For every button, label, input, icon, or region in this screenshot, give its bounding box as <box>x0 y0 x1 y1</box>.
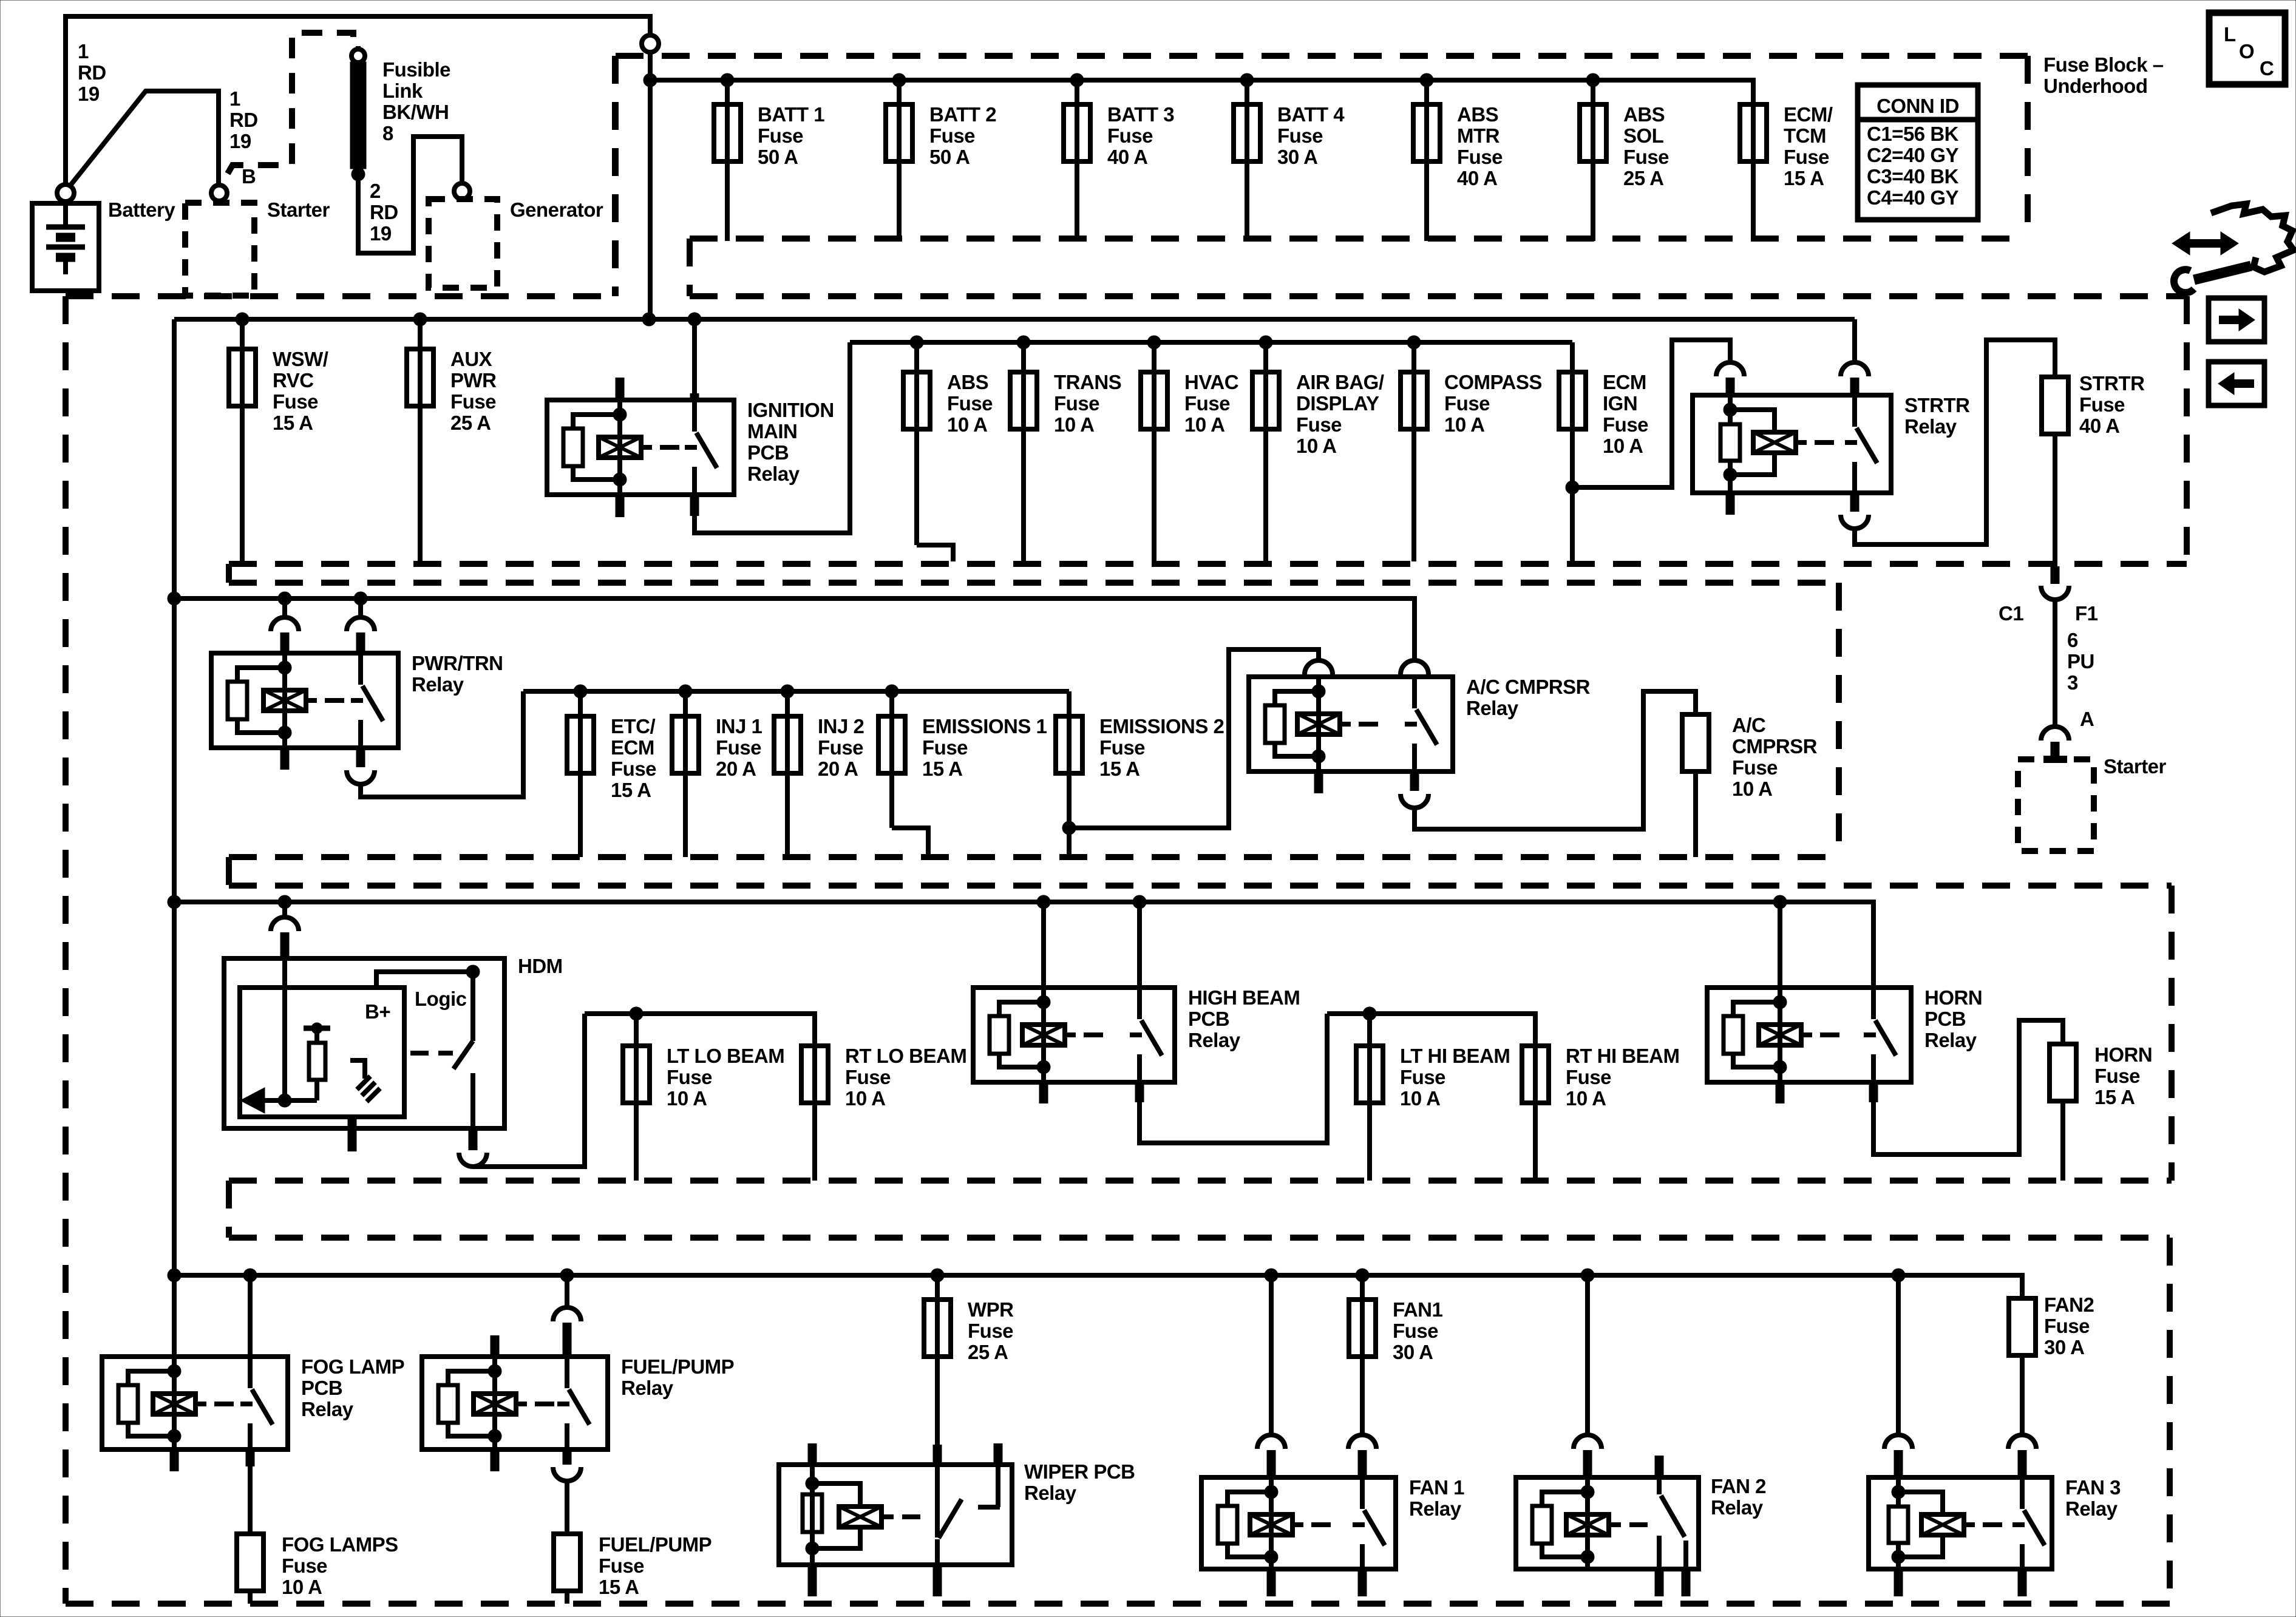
wire A/C CMPRSR fuse output <box>1693 771 1698 857</box>
svg-text:Battery: Battery <box>108 198 175 221</box>
fusible link terminal <box>356 46 361 50</box>
service wrench icon <box>2172 204 2294 293</box>
relay HIGH BEAM PCB <box>973 986 1300 1082</box>
wire HDM output to low beam fuses <box>473 1014 585 1167</box>
fuse STRTR <box>2042 372 2145 437</box>
svg-text:STRTR: STRTR <box>2079 372 2145 395</box>
svg-text:RD: RD <box>78 61 106 84</box>
svg-text:15 A: 15 A <box>922 758 962 780</box>
svg-text:Relay: Relay <box>747 463 800 485</box>
svg-text:30 A: 30 A <box>1393 1341 1433 1363</box>
svg-text:Fuse: Fuse <box>2094 1065 2140 1087</box>
svg-text:LT LO BEAM: LT LO BEAM <box>667 1045 784 1067</box>
pin stub PWR/TRN coil output <box>280 748 290 770</box>
fuse ABS SOL <box>1580 80 1669 241</box>
junction HDM switch <box>466 965 480 978</box>
fuse A/C CMPRSR <box>1682 714 1818 800</box>
junction bus1 BATT 1 <box>721 73 734 87</box>
svg-text:19: 19 <box>78 83 100 105</box>
svg-text:FUEL/PUMP: FUEL/PUMP <box>599 1533 712 1556</box>
resistor HDM sense <box>304 1023 330 1100</box>
fuse HORN <box>2050 1043 2152 1108</box>
svg-text:20 A: 20 A <box>716 758 756 780</box>
fuse RT HI BEAM <box>1522 1045 1680 1181</box>
connector FAN1 coil pin <box>1257 1435 1285 1449</box>
wire FOG LAMPS fuse output <box>248 1591 253 1604</box>
svg-text:Relay: Relay <box>1024 1482 1077 1504</box>
svg-text:Fuse: Fuse <box>947 392 993 415</box>
svg-text:HORN: HORN <box>1924 986 1982 1009</box>
bus high beam <box>1327 1011 1535 1016</box>
junction bus3 PWR/TRN coil <box>278 592 291 605</box>
fuse AUX PWR <box>407 319 497 561</box>
junction bus5 FAN3 relay coil <box>1892 1269 1905 1282</box>
junction bus1 BATT 2 <box>892 73 906 87</box>
pin stub FOG coil output <box>170 1449 179 1471</box>
wire EMISSIONS 2 output down <box>1067 828 1072 857</box>
svg-text:PCB: PCB <box>301 1377 342 1399</box>
svg-text:B: B <box>242 165 256 188</box>
connector A/C switch output <box>1401 794 1428 808</box>
svg-text:RD: RD <box>229 109 258 131</box>
svg-text:SOL: SOL <box>1623 124 1664 147</box>
svg-text:30 A: 30 A <box>2044 1336 2084 1358</box>
wire bus4 to HORN relay coil <box>1773 895 1787 909</box>
junction bus2 feed <box>642 313 656 326</box>
svg-text:FUEL/PUMP: FUEL/PUMP <box>621 1355 734 1378</box>
svg-text:Fuse: Fuse <box>1457 146 1503 168</box>
svg-text:10 A: 10 A <box>282 1576 322 1598</box>
svg-text:INJ 1: INJ 1 <box>716 715 763 737</box>
svg-text:PCB: PCB <box>747 441 789 464</box>
svg-text:RT LO BEAM: RT LO BEAM <box>845 1045 966 1067</box>
connector FUEL/PUMP switch pin <box>553 1307 581 1321</box>
svg-text:FAN 3: FAN 3 <box>2065 1476 2121 1499</box>
svg-text:Fuse: Fuse <box>1566 1066 1611 1088</box>
svg-text:Fuse: Fuse <box>758 124 803 147</box>
svg-text:MAIN: MAIN <box>747 420 797 442</box>
pin stub ignition switch output <box>690 496 699 516</box>
svg-text:8: 8 <box>382 122 393 144</box>
svg-text:FOG LAMPS: FOG LAMPS <box>282 1533 398 1556</box>
starter (dashed box) <box>2018 759 2094 851</box>
svg-text:ABS: ABS <box>1623 103 1665 126</box>
fuse ECM IGN <box>1559 342 1648 487</box>
svg-text:Fuse: Fuse <box>2044 1315 2090 1337</box>
wire bus5 to FUEL/PUMP relay switch <box>565 1275 569 1308</box>
connector FUEL/PUMP switch output <box>553 1467 581 1481</box>
svg-text:10 A: 10 A <box>1400 1087 1440 1110</box>
bus battery positive (top fuse row) <box>650 78 1753 83</box>
svg-text:A/C: A/C <box>1732 714 1765 736</box>
svg-text:FOG LAMP: FOG LAMP <box>301 1355 404 1378</box>
wire bus4 corner to HORN relay switch <box>1871 902 1873 988</box>
bus low beam <box>585 1011 815 1016</box>
svg-text:Relay: Relay <box>1188 1029 1241 1051</box>
svg-text:Fuse: Fuse <box>1099 736 1145 759</box>
fuse EMISSIONS 2 <box>1056 691 1224 828</box>
wire left vertical bus <box>172 319 177 1275</box>
wire battery to starter B terminal (1 RD 19) <box>69 91 219 188</box>
svg-text:Fuse: Fuse <box>599 1554 644 1577</box>
wire FUEL/PUMP fuse output <box>565 1591 569 1604</box>
svg-text:FAN 2: FAN 2 <box>1711 1475 1766 1497</box>
relay FAN 1 <box>1201 1476 1464 1569</box>
svg-text:Relay: Relay <box>1924 1029 1977 1051</box>
svg-text:BATT 3: BATT 3 <box>1107 103 1174 126</box>
bus section3 switched <box>523 689 1069 694</box>
generator output terminal <box>454 183 470 199</box>
junction ECM IGN output <box>1566 481 1579 494</box>
svg-text:HDM: HDM <box>518 955 563 977</box>
wire STRTR relay output to STRTR fuse <box>1855 340 2055 544</box>
wire bus2 to ignition relay switch <box>692 319 697 393</box>
svg-text:Fuse: Fuse <box>1054 392 1099 415</box>
svg-text:DISPLAY: DISPLAY <box>1296 392 1379 415</box>
pin stub A/C coil output <box>1314 771 1323 793</box>
svg-text:3: 3 <box>2067 671 2078 694</box>
wire bus5 to FAN2 relay coil <box>1585 1275 1590 1436</box>
fuse RT HI BEAM <box>1533 1014 1535 1046</box>
svg-text:10 A: 10 A <box>1184 413 1224 436</box>
junction bus5 FOG switch <box>243 1269 257 1282</box>
fuse ABS MTR <box>1413 80 1503 241</box>
connector starter terminal A <box>2041 727 2069 741</box>
svg-text:A/C CMPRSR: A/C CMPRSR <box>1466 676 1591 698</box>
svg-text:ECM/: ECM/ <box>1784 103 1833 126</box>
wire bus1 corner to ECM/TCM fuse <box>1751 80 1753 104</box>
wire fusible link to generator (2 RD 19) <box>358 137 462 253</box>
fuse RT LO BEAM <box>812 1014 815 1046</box>
junction EMISSIONS 2 output <box>1062 821 1076 835</box>
svg-text:Relay: Relay <box>1711 1496 1764 1519</box>
svg-text:15 A: 15 A <box>599 1576 639 1598</box>
svg-text:25 A: 25 A <box>968 1341 1008 1363</box>
svg-text:Fuse: Fuse <box>282 1554 327 1577</box>
svg-text:6: 6 <box>2067 629 2078 651</box>
junction bus5 WPR fuse <box>931 1269 944 1282</box>
pin stub HDM ground <box>348 1117 357 1151</box>
svg-text:Fuse: Fuse <box>1400 1066 1445 1088</box>
svg-text:AIR BAG/: AIR BAG/ <box>1296 371 1384 393</box>
connector FAN1 switch pin <box>1348 1435 1376 1449</box>
bus section5 <box>174 1273 2022 1278</box>
junction bus3b INJ 1 <box>679 685 692 698</box>
svg-text:C4=40 GY: C4=40 GY <box>1867 186 1958 209</box>
junction bus3b ETC/ECM <box>574 685 587 698</box>
pin stub HDM output <box>469 1128 478 1150</box>
relay WIPER PCB <box>779 1443 1135 1596</box>
junction bus2b COMPASS <box>1407 336 1421 349</box>
connector HDM output pin <box>459 1153 487 1167</box>
wire HDM internal B+ arrow <box>258 1098 317 1103</box>
svg-text:15 A: 15 A <box>2094 1086 2135 1108</box>
svg-text:2: 2 <box>370 180 381 202</box>
fuse EMISSIONS 1 <box>878 691 1047 828</box>
svg-text:RD: RD <box>370 201 398 223</box>
fuse FUEL/PUMP <box>554 1533 712 1598</box>
pin stub HORN coil output <box>1776 1082 1785 1103</box>
svg-text:Relay: Relay <box>1409 1497 1462 1520</box>
svg-text:HIGH BEAM: HIGH BEAM <box>1188 986 1300 1009</box>
svg-text:F1: F1 <box>2075 602 2098 625</box>
svg-text:COMPASS: COMPASS <box>1444 371 1542 393</box>
svg-text:INJ 2: INJ 2 <box>818 715 864 737</box>
svg-text:Fuse: Fuse <box>450 390 496 413</box>
svg-text:50 A: 50 A <box>758 146 798 168</box>
junction bus1 ABS SOL <box>1586 73 1600 87</box>
svg-text:10 A: 10 A <box>667 1087 707 1110</box>
pin stub FOG switch output <box>246 1449 255 1466</box>
svg-text:ABS: ABS <box>947 371 988 393</box>
svg-text:Fuse: Fuse <box>1107 124 1153 147</box>
svg-text:30 A: 30 A <box>1277 146 1317 168</box>
pin stub HORN switch output <box>1869 1082 1878 1102</box>
wire PWR/TRN output to fuse bus3b <box>361 691 523 797</box>
svg-text:10 A: 10 A <box>1566 1087 1606 1110</box>
svg-text:Fusible: Fusible <box>382 58 450 81</box>
svg-text:Fuse: Fuse <box>1623 146 1669 168</box>
wire A/C relay output to A/C CMPRSR fuse <box>1415 691 1696 829</box>
svg-text:Fuse: Fuse <box>845 1066 891 1088</box>
starter B terminal <box>211 185 227 201</box>
connector STRTR switch output <box>1841 515 1869 529</box>
connector STRTR relay switch pin <box>1841 362 1869 376</box>
fuse ECM/TCM <box>1740 103 1833 241</box>
svg-text:19: 19 <box>370 222 392 245</box>
fuse LT HI BEAM <box>1356 1014 1510 1181</box>
svg-text:EMISSIONS 2: EMISSIONS 2 <box>1099 715 1224 737</box>
svg-text:1: 1 <box>78 40 89 63</box>
fuse BATT 4 <box>1234 80 1345 241</box>
svg-text:Fuse: Fuse <box>2079 393 2125 416</box>
pin stub FAN1 outputs <box>1267 1569 1276 1596</box>
connector C1/F1 <box>2051 566 2060 584</box>
fuse HVAC <box>1141 342 1238 561</box>
junction bus5 FAN1 relay coil <box>1265 1269 1278 1282</box>
wire HDM logic to switch <box>376 972 473 988</box>
junction bus1 ABS MTR <box>1420 73 1433 87</box>
junction bus1 BATT 4 <box>1240 73 1254 87</box>
svg-text:BK/WH: BK/WH <box>382 101 449 123</box>
svg-text:Fuse: Fuse <box>922 736 968 759</box>
connector PWR/TRN switch pin <box>347 617 375 631</box>
svg-text:Fuse: Fuse <box>716 736 761 759</box>
svg-text:10 A: 10 A <box>845 1087 885 1110</box>
fuse RT LO BEAM <box>801 1045 966 1181</box>
svg-text:PCB: PCB <box>1188 1008 1229 1030</box>
svg-text:A: A <box>2080 708 2094 730</box>
wire HORN fuse output <box>2060 1101 2065 1181</box>
svg-text:C1: C1 <box>1999 602 2023 625</box>
pin stub STRTR coil output <box>1726 493 1735 515</box>
svg-text:Fuse: Fuse <box>968 1320 1013 1342</box>
fuse ABS <box>903 342 993 545</box>
svg-text:BATT 1: BATT 1 <box>758 103 824 126</box>
svg-text:Fuse: Fuse <box>1277 124 1323 147</box>
junction bus2b ABS <box>910 336 923 349</box>
svg-text:Fuse: Fuse <box>1296 413 1342 436</box>
svg-text:10 A: 10 A <box>1603 435 1643 457</box>
svg-text:40 A: 40 A <box>1457 167 1497 189</box>
fuse WPR <box>924 1275 1014 1445</box>
svg-text:15 A: 15 A <box>1099 758 1140 780</box>
svg-text:10 A: 10 A <box>1296 435 1336 457</box>
wire battery feed junction into fuse block <box>648 52 653 319</box>
junction LT HI BEAM <box>1363 1007 1376 1020</box>
junction bus2 AUX PWR fuse <box>413 313 427 326</box>
dashed wire starter to fusible link <box>228 33 353 174</box>
svg-text:ABS: ABS <box>1457 103 1498 126</box>
fuse BATT 2 <box>886 80 996 241</box>
pin stub STRTR switch output <box>1850 493 1860 512</box>
wire FUEL/PUMP output to fuse <box>565 1481 569 1534</box>
switch HDM output driver <box>470 972 475 1041</box>
svg-text:15 A: 15 A <box>273 412 313 434</box>
junction bus1/feed <box>644 73 657 87</box>
svg-text:L: L <box>2224 23 2236 46</box>
svg-text:Underhood: Underhood <box>2043 75 2147 97</box>
svg-text:HVAC: HVAC <box>1184 371 1238 393</box>
svg-text:TRANS: TRANS <box>1054 371 1121 393</box>
pin stub HIGH BEAM switch output <box>1135 1082 1144 1102</box>
svg-text:Fuse: Fuse <box>611 758 656 780</box>
svg-text:IGN: IGN <box>1603 392 1637 415</box>
connector FAN3 coil pin <box>1884 1435 1912 1449</box>
svg-text:Relay: Relay <box>301 1398 354 1420</box>
junction bus5 FAN1 fuse <box>1356 1269 1369 1282</box>
fuse block underhood dashed outline (top box) <box>616 56 2028 296</box>
wire bus3 corner to A/C relay switch pin <box>1412 598 1415 661</box>
svg-text:Link: Link <box>382 80 423 102</box>
dashed link HDM logic to switch <box>410 1051 429 1056</box>
svg-text:10 A: 10 A <box>1444 413 1484 436</box>
wire bus4 to HIGH BEAM relay coil <box>1037 895 1050 909</box>
svg-text:Relay: Relay <box>621 1377 674 1399</box>
svg-text:Starter: Starter <box>267 198 330 221</box>
connector A/C relay switch pin <box>1401 660 1428 674</box>
pin stub HIGH BEAM coil output <box>1039 1082 1048 1103</box>
module HDM <box>224 955 563 1128</box>
svg-text:RVC: RVC <box>273 369 314 392</box>
pin stub A/C switch output <box>1410 771 1419 791</box>
svg-text:EMISSIONS 1: EMISSIONS 1 <box>922 715 1047 737</box>
junction bus1 BATT 3 <box>1070 73 1084 87</box>
svg-text:Fuse Block –: Fuse Block – <box>2043 53 2164 76</box>
starter S1 (dashed box) <box>185 203 254 296</box>
wire bus2 to STRTR relay switch <box>1852 319 1857 363</box>
fuse INJ 1 <box>672 691 763 857</box>
svg-text:PWR: PWR <box>450 369 497 392</box>
bus section2 switched (ignition output) <box>850 340 1572 345</box>
fusible link BK/WH 8 <box>350 62 366 169</box>
svg-text:10 A: 10 A <box>1732 778 1772 800</box>
svg-text:Relay: Relay <box>1904 415 1957 438</box>
svg-text:O: O <box>2239 40 2254 63</box>
svg-text:C3=40 BK: C3=40 BK <box>1867 165 1959 188</box>
svg-text:Logic: Logic <box>415 988 467 1010</box>
pin stub ignition relay coil (unconnected) <box>616 378 625 400</box>
svg-text:RT HI BEAM: RT HI BEAM <box>1566 1045 1680 1067</box>
wire HIGH BEAM output to hi beam fuses <box>1140 1014 1327 1143</box>
relay FAN 3 <box>1869 1476 2121 1569</box>
svg-text:B+: B+ <box>365 1000 390 1023</box>
wire ECM IGN output down <box>1570 487 1575 561</box>
fuse FAN2 <box>2009 1293 2094 1358</box>
svg-text:ECM: ECM <box>1603 371 1646 393</box>
wire bus3 to PWR/TRN switch pin <box>358 598 363 618</box>
svg-text:50 A: 50 A <box>929 146 970 168</box>
junction bus5 FUEL/PUMP switch <box>560 1269 574 1282</box>
relay FAN 2 <box>1516 1456 1766 1596</box>
bus section2 (from battery feed) <box>174 317 1855 322</box>
svg-text:Fuse: Fuse <box>818 736 863 759</box>
junction bus4 left <box>168 895 181 909</box>
wire to starter solenoid (6 PU 3) <box>2053 600 2057 726</box>
svg-text:Fuse: Fuse <box>1393 1320 1438 1342</box>
junction fusible link / generator wire <box>352 168 365 181</box>
fuse BATT 1 <box>714 80 824 241</box>
wire bus4 to HDM pin B+ <box>282 902 287 918</box>
LOC legend box <box>2209 13 2285 84</box>
svg-text:Fuse: Fuse <box>1603 413 1648 436</box>
fuse WSW/RVC <box>229 319 328 561</box>
relay FOG LAMP PCB <box>102 1355 404 1449</box>
junction bus3 left <box>168 592 181 605</box>
wire bus4 to HIGH BEAM relay switch <box>1133 895 1146 909</box>
pin stub PWR/TRN switch output <box>356 748 365 767</box>
wire HORN relay output to HORN fuse <box>1873 1020 2063 1154</box>
svg-text:Fuse: Fuse <box>667 1066 712 1088</box>
connector A/C CMPRSR relay coil pin <box>1305 660 1333 674</box>
svg-text:40 A: 40 A <box>2079 415 2119 437</box>
relay STRTR <box>1693 394 1970 493</box>
ground HDM internal <box>350 1060 380 1102</box>
arrow right legend box <box>2209 298 2264 342</box>
junction bus2b AIR BAG <box>1259 336 1272 349</box>
connector PWR/TRN coil pin <box>271 617 299 631</box>
svg-text:10 A: 10 A <box>1054 413 1094 436</box>
svg-text:C2=40 GY: C2=40 GY <box>1867 144 1958 166</box>
svg-text:LT HI BEAM: LT HI BEAM <box>1400 1045 1510 1067</box>
battery positive terminal <box>57 185 74 202</box>
fuse TRANS <box>1010 342 1121 561</box>
fuse BATT 3 <box>1064 80 1174 241</box>
svg-text:BATT 2: BATT 2 <box>929 103 996 126</box>
svg-text:CONN ID: CONN ID <box>1877 95 1959 117</box>
svg-text:15 A: 15 A <box>611 779 651 801</box>
svg-text:Fuse: Fuse <box>1784 146 1829 168</box>
svg-text:Relay: Relay <box>412 673 464 696</box>
connector FAN2 coil pin <box>1574 1435 1601 1449</box>
wire FAN2 fuse to FAN3 relay switch <box>2020 1355 2025 1436</box>
junction bus5 left <box>168 1269 181 1282</box>
svg-text:C1=56 BK: C1=56 BK <box>1867 123 1959 145</box>
svg-text:TCM: TCM <box>1784 124 1826 147</box>
svg-text:15 A: 15 A <box>1784 167 1824 189</box>
svg-text:HORN: HORN <box>2094 1043 2152 1066</box>
connector ID table <box>1858 85 1978 220</box>
svg-text:FAN1: FAN1 <box>1393 1298 1443 1321</box>
bus section3 <box>174 596 1415 601</box>
svg-text:Fuse: Fuse <box>1732 756 1778 779</box>
connector HDM B+ pin <box>271 917 299 931</box>
connector STRTR relay coil pin <box>1716 362 1744 376</box>
svg-text:IGNITION: IGNITION <box>747 399 834 421</box>
fuse ETC/ECM <box>567 691 656 857</box>
generator G1 (dashed box) <box>429 199 497 288</box>
svg-text:AUX: AUX <box>450 348 492 370</box>
